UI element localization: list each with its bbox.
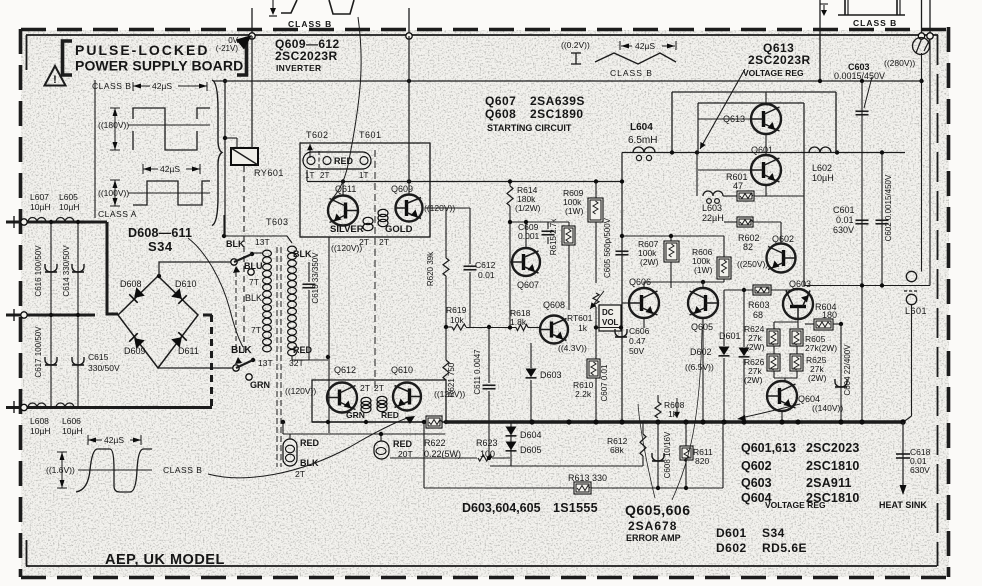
svg-text:330/50V: 330/50V: [88, 363, 120, 373]
svg-text:((280V)): ((280V)): [884, 58, 915, 68]
svg-text:((0.2V)): ((0.2V)): [561, 40, 590, 50]
svg-text:BLK: BLK: [245, 293, 262, 303]
svg-text:STARTING CIRCUIT: STARTING CIRCUIT: [487, 123, 572, 133]
svg-text:Q603: Q603: [789, 279, 811, 289]
svg-text:D604: D604: [520, 430, 542, 440]
svg-text:((1.6V)): ((1.6V)): [46, 465, 75, 475]
svg-text:T601: T601: [359, 130, 382, 140]
svg-text:C615: C615: [88, 352, 109, 362]
svg-text:Q611: Q611: [335, 184, 356, 194]
svg-text:2SA639S: 2SA639S: [530, 94, 585, 108]
svg-text:68: 68: [753, 310, 763, 320]
svg-text:Q607: Q607: [517, 280, 539, 290]
svg-text:RED: RED: [293, 345, 313, 355]
svg-text:10µH: 10µH: [812, 173, 834, 183]
svg-text:SILVER: SILVER: [330, 224, 364, 235]
svg-text:13T: 13T: [255, 237, 270, 247]
svg-text:L603: L603: [702, 203, 722, 213]
svg-text:GRN: GRN: [346, 410, 365, 420]
svg-text:L604: L604: [630, 122, 653, 133]
svg-text:S34: S34: [762, 526, 785, 540]
svg-text:0.22(5W): 0.22(5W): [424, 449, 461, 459]
svg-text:L608: L608: [30, 416, 49, 426]
svg-text:Q601: Q601: [751, 145, 773, 155]
svg-text:82: 82: [743, 242, 753, 252]
svg-text:2T: 2T: [320, 171, 329, 180]
svg-text:VOLTAGE REG: VOLTAGE REG: [765, 500, 826, 510]
svg-text:S34: S34: [148, 239, 173, 254]
svg-text:2T: 2T: [295, 469, 305, 479]
svg-text:C613 33/350V: C613 33/350V: [311, 252, 320, 304]
svg-text:((120V)): ((120V)): [285, 386, 316, 396]
svg-text:BLK: BLK: [293, 249, 312, 259]
svg-text:CLASS B: CLASS B: [163, 465, 202, 475]
svg-text:GRN: GRN: [250, 380, 270, 390]
svg-text:820: 820: [695, 456, 709, 466]
svg-text:POWER SUPPLY BOARD: POWER SUPPLY BOARD: [75, 58, 243, 74]
svg-text:((140V)): ((140V)): [812, 403, 843, 413]
svg-text:6.5mH: 6.5mH: [628, 135, 657, 146]
svg-text:C608 10/16V: C608 10/16V: [663, 431, 672, 478]
svg-text:((100V)): ((100V)): [98, 188, 129, 198]
svg-text:(2W): (2W): [640, 257, 659, 267]
svg-text:!: !: [53, 74, 57, 86]
svg-text:2SA678: 2SA678: [628, 519, 677, 533]
svg-text:CLASS B: CLASS B: [92, 81, 131, 91]
svg-text:Q602: Q602: [772, 234, 794, 244]
svg-text:VOL: VOL: [602, 318, 619, 327]
svg-text:((180V)): ((180V)): [98, 120, 129, 130]
svg-text:C612: C612: [475, 260, 496, 270]
svg-text:2T: 2T: [360, 383, 370, 393]
svg-text:R603: R603: [748, 300, 770, 310]
svg-text:RED: RED: [300, 438, 320, 448]
svg-text:((120V)): ((120V)): [331, 243, 362, 253]
svg-text:D602: D602: [716, 541, 747, 555]
svg-text:DC: DC: [602, 308, 614, 317]
svg-text:Q601,613: Q601,613: [741, 441, 796, 455]
svg-text:CLASS B: CLASS B: [288, 19, 332, 29]
svg-text:(1W): (1W): [565, 206, 584, 216]
svg-text:D608: D608: [120, 279, 142, 289]
svg-text:0.47: 0.47: [629, 336, 646, 346]
svg-text:42µS: 42µS: [104, 435, 124, 445]
svg-text:PULSE-LOCKED: PULSE-LOCKED: [75, 42, 209, 58]
svg-text:C604 22/400V: C604 22/400V: [843, 344, 852, 396]
svg-text:L601: L601: [905, 306, 927, 316]
svg-text:((6.5V)): ((6.5V)): [685, 362, 714, 372]
svg-text:47: 47: [733, 181, 743, 191]
svg-text:Q610: Q610: [391, 365, 413, 375]
svg-text:L602: L602: [812, 163, 832, 173]
svg-text:Q608: Q608: [485, 107, 516, 121]
svg-text:0.001: 0.001: [518, 231, 540, 241]
svg-text:C602 0.0015/450V: C602 0.0015/450V: [884, 174, 893, 241]
svg-text:Q603: Q603: [741, 476, 772, 490]
svg-text:R620 39k: R620 39k: [426, 251, 435, 286]
svg-text:D603: D603: [540, 370, 562, 380]
svg-text:D601: D601: [719, 331, 741, 341]
svg-text:2SC1890: 2SC1890: [530, 107, 584, 121]
svg-text:C614 330/50V: C614 330/50V: [62, 245, 71, 297]
svg-text:Q605,606: Q605,606: [625, 502, 691, 518]
svg-text:RY601: RY601: [254, 168, 284, 178]
svg-text:R622: R622: [424, 438, 446, 448]
svg-text:GOLD: GOLD: [385, 224, 413, 235]
svg-text:0.01: 0.01: [478, 270, 495, 280]
svg-text:((4.3V)): ((4.3V)): [558, 343, 587, 353]
svg-text:INVERTER: INVERTER: [276, 63, 321, 73]
svg-text:42µS: 42µS: [635, 41, 655, 51]
svg-text:10µH: 10µH: [59, 202, 80, 212]
svg-text:C617 100/50V: C617 100/50V: [34, 326, 43, 378]
svg-text:10µH: 10µH: [62, 426, 83, 436]
svg-text:0.01: 0.01: [836, 215, 854, 225]
svg-text:L606: L606: [62, 416, 81, 426]
svg-text:1S1555: 1S1555: [553, 501, 598, 515]
svg-text:630V: 630V: [910, 465, 930, 475]
svg-text:Q602: Q602: [741, 459, 772, 473]
svg-text:2SC2023R: 2SC2023R: [275, 49, 338, 63]
svg-text:RED: RED: [334, 156, 354, 166]
svg-text:(2W): (2W): [746, 342, 765, 352]
svg-text:CLASS A: CLASS A: [98, 209, 137, 219]
svg-text:2SC2023: 2SC2023: [806, 441, 860, 455]
svg-text:Q609: Q609: [391, 184, 413, 194]
svg-text:2SC1810: 2SC1810: [806, 459, 860, 473]
svg-text:C605 560p/500V: C605 560p/500V: [603, 217, 612, 278]
svg-text:Q608: Q608: [543, 300, 565, 310]
svg-text:2T: 2T: [379, 237, 389, 247]
svg-text:D603,604,605: D603,604,605: [462, 501, 541, 515]
svg-text:Q607: Q607: [485, 94, 516, 108]
svg-text:1T: 1T: [305, 171, 314, 180]
svg-text:BLK: BLK: [226, 239, 245, 249]
svg-text:1T: 1T: [359, 171, 368, 180]
svg-text:180: 180: [822, 310, 837, 320]
svg-text:D611: D611: [178, 346, 199, 356]
svg-text:RD5.6E: RD5.6E: [762, 541, 807, 555]
svg-text:2T: 2T: [374, 383, 384, 393]
svg-text:10µH: 10µH: [30, 202, 51, 212]
svg-text:27k(2W): 27k(2W): [805, 343, 837, 353]
svg-text:R619: R619: [446, 305, 467, 315]
svg-text:42µS: 42µS: [152, 81, 172, 91]
svg-text:50V: 50V: [629, 346, 644, 356]
svg-text:AEP, UK MODEL: AEP, UK MODEL: [105, 552, 225, 568]
svg-text:2SA911: 2SA911: [806, 476, 852, 490]
svg-text:RED: RED: [393, 439, 413, 449]
svg-text:D608—611: D608—611: [128, 226, 192, 240]
svg-text:D605: D605: [520, 445, 542, 455]
svg-text:1k: 1k: [578, 323, 588, 333]
svg-text:R621 750: R621 750: [447, 362, 456, 397]
svg-text:Q612: Q612: [334, 365, 356, 375]
svg-text:BLK: BLK: [231, 345, 252, 356]
svg-text:C616 100/50V: C616 100/50V: [34, 245, 43, 297]
svg-text:(2W): (2W): [744, 375, 763, 385]
svg-text:C611 0.0047: C611 0.0047: [473, 349, 482, 395]
svg-text:R615 2.7k: R615 2.7k: [549, 218, 558, 255]
svg-text:10µH: 10µH: [30, 426, 51, 436]
svg-text:CLASS B: CLASS B: [610, 68, 653, 78]
svg-text:(1W): (1W): [694, 265, 713, 275]
svg-text:L605: L605: [59, 192, 78, 202]
svg-text:(1/2W): (1/2W): [515, 203, 541, 213]
svg-text:D602: D602: [690, 347, 712, 357]
svg-text:VOLTAGE REG: VOLTAGE REG: [743, 68, 804, 78]
svg-text:7T: 7T: [251, 325, 261, 335]
svg-text:R623: R623: [476, 438, 498, 448]
svg-text:HEAT SINK: HEAT SINK: [879, 500, 927, 510]
svg-text:C601: C601: [833, 205, 855, 215]
svg-text:(-21V): (-21V): [216, 44, 239, 53]
svg-text:L607: L607: [30, 192, 49, 202]
svg-text:T602: T602: [306, 130, 329, 140]
svg-text:D609: D609: [124, 346, 146, 356]
svg-text:1.8k: 1.8k: [510, 317, 527, 327]
svg-text:7T: 7T: [249, 277, 259, 287]
svg-text:RED: RED: [381, 410, 399, 420]
svg-text:(2W): (2W): [808, 373, 827, 383]
svg-text:D601: D601: [716, 526, 747, 540]
svg-text:RT601: RT601: [567, 313, 593, 323]
svg-text:630V: 630V: [833, 225, 854, 235]
svg-text:C606: C606: [629, 326, 650, 336]
svg-text:2SC2023R: 2SC2023R: [748, 53, 811, 67]
svg-text:CLASS B: CLASS B: [853, 18, 897, 28]
svg-text:((250V)): ((250V)): [737, 259, 768, 269]
svg-text:42µS: 42µS: [160, 164, 180, 174]
svg-text:2.2k: 2.2k: [575, 389, 592, 399]
svg-text:68k: 68k: [610, 445, 624, 455]
svg-text:0.0015/450V: 0.0015/450V: [834, 71, 885, 81]
svg-text:22µH: 22µH: [702, 213, 724, 223]
svg-text:13T: 13T: [258, 358, 273, 368]
svg-text:C607 0.01: C607 0.01: [600, 364, 609, 401]
svg-text:R613 330: R613 330: [568, 473, 607, 483]
svg-text:D610: D610: [175, 279, 197, 289]
svg-text:T603: T603: [266, 217, 289, 227]
svg-text:ERROR AMP: ERROR AMP: [626, 533, 681, 543]
